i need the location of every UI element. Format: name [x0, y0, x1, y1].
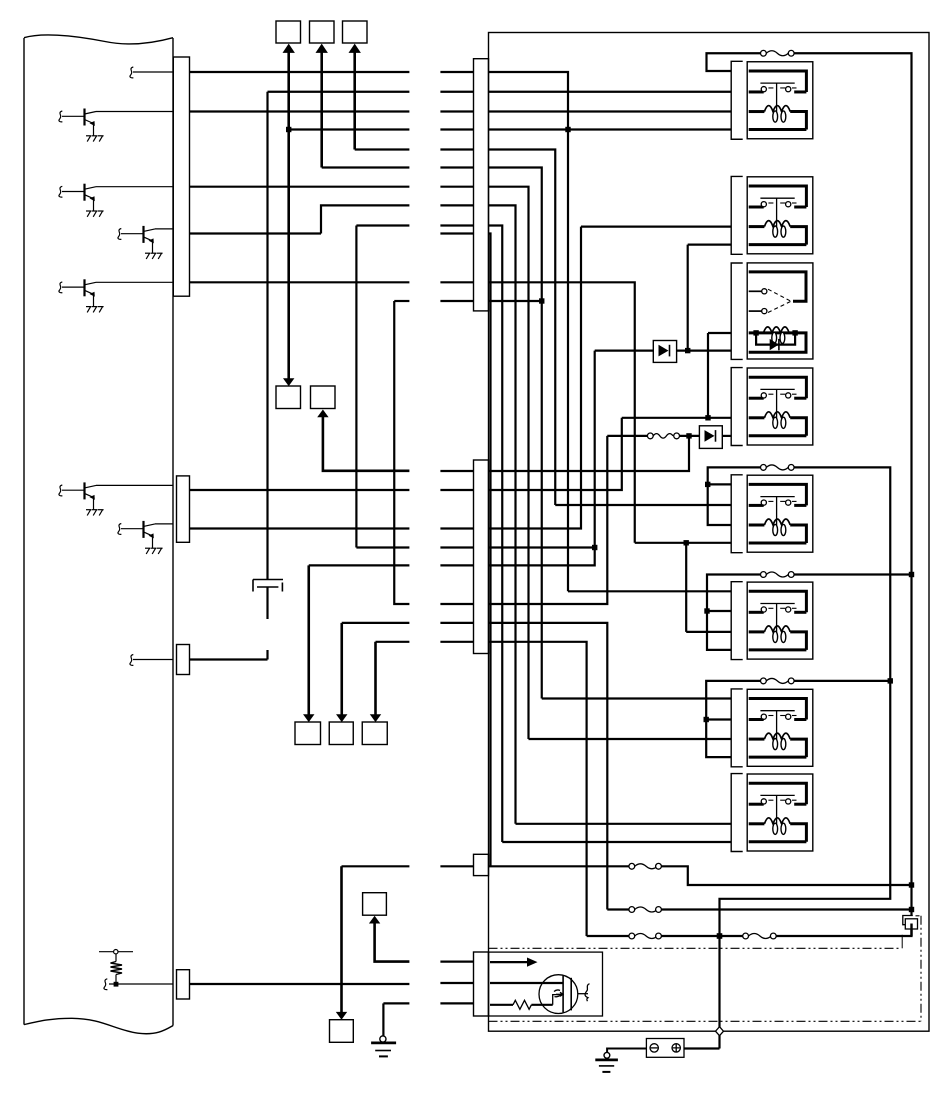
- wire vertical net relay8-bottom (x356): [355, 226, 357, 548]
- wire continuation squiggle pin 659: [130, 655, 133, 666]
- arrow down into square A: [283, 378, 294, 386]
- fuse F4: [629, 907, 662, 913]
- ground G2 circle: [604, 1052, 610, 1058]
- connector square D1: [295, 722, 321, 745]
- junction dot relay6 contact stub: [704, 608, 709, 613]
- wire row 350.6 diode1 input: [595, 350, 654, 352]
- relay K3 coil junction squares: [753, 330, 758, 335]
- junction dot x568 row129.5: [565, 127, 570, 132]
- connector square D2: [329, 722, 353, 745]
- transistor Q6: [118, 521, 173, 548]
- junction dot x719.5 row936 second: [717, 933, 722, 938]
- dash-dot boundary right: [920, 916, 922, 1022]
- wire row 226.6 to relay2 coil: [581, 226, 731, 228]
- arrow up into square E: [349, 44, 361, 53]
- wire motor lower with resistor R2: [490, 1004, 513, 1006]
- wire row 205.4 right part, corner down x515.5: [440, 205, 515, 823]
- junction resistor/pin983: [114, 982, 119, 987]
- diode D1 symbol: [659, 345, 669, 357]
- relay K3 contact terminal 1: [749, 290, 762, 292]
- relay K8: [731, 774, 813, 852]
- junction dot relay7 contact stub: [704, 717, 709, 722]
- junction dot x594.7 row547.5: [592, 545, 597, 550]
- wire vertical x394 (fuse2 net link): [394, 301, 409, 604]
- wire ECU pin y72 internal: [133, 71, 173, 73]
- arrow up into square H: [369, 916, 380, 924]
- resistor R1 pull-up inside ECU: [99, 950, 173, 985]
- wire row 604 right part, corner up x607.3: [440, 436, 607, 604]
- relay K1 (condenser fan relay): [731, 61, 813, 139]
- wire ECU pin 72 row: [190, 71, 410, 73]
- wiper motor assembly box: [489, 952, 603, 1016]
- wire row 167.5 right part, corner down x541.75: [440, 168, 541, 699]
- wire resistor to motor: [531, 1004, 552, 1006]
- wire ground row right part: [440, 1002, 474, 1004]
- connector square F (top row 2): [310, 21, 335, 43]
- connector square H: [363, 893, 387, 916]
- in-line connector stub above bar3 wire: [266, 650, 268, 660]
- wire row 129.5 left part from C-line junction: [289, 128, 410, 130]
- wire row 282 right part, corner down x634.75: [440, 282, 634, 543]
- junction box connector bar 4: [474, 854, 489, 875]
- wire ECU pin 111.5 row (Q1): [190, 110, 410, 112]
- wire vertical down into square D3: [374, 642, 377, 716]
- wire row 697.5 to relay7 top: [542, 697, 731, 699]
- fuse F1: [761, 50, 795, 56]
- wire row 591.3 to relay6 top: [568, 590, 731, 592]
- resistor R2 zigzag: [513, 1000, 531, 1009]
- wire vertical down into square G: [340, 866, 343, 1014]
- wire row 301 left part: [394, 300, 409, 302]
- ground of Q3: [145, 253, 163, 259]
- wire row 1003.4 left part: [383, 1002, 409, 1004]
- wire vertical square F down: [320, 48, 323, 168]
- wire row 225.5 right part, corner down x502.25: [440, 226, 502, 843]
- diode D2 symbol: [705, 430, 715, 442]
- wire relay1 feed jog: [707, 53, 912, 915]
- wire relay6 feed and fuse F8: [707, 575, 912, 650]
- ECU connector bar 2: [177, 476, 190, 542]
- wire battery plus to riser: [684, 1047, 720, 1049]
- relay K6: [731, 582, 813, 660]
- ground of Q4: [86, 307, 104, 313]
- arrow down into square D1: [303, 714, 314, 722]
- wire row 866.3 left part to square G: [342, 865, 410, 867]
- transistor Q3: [118, 226, 173, 253]
- wire row 72 right part, corner down x568: [440, 72, 568, 591]
- transistor Q1: [59, 109, 173, 136]
- diode D2 box: [699, 426, 722, 449]
- wire row 92 right part to relay1 contact: [440, 91, 731, 93]
- relay K3 coil row: [749, 333, 806, 352]
- relay K3 bracket: [731, 263, 743, 359]
- wire row 244.6 to relay2 bottom: [688, 244, 732, 246]
- junction dot x541.75 row301: [539, 298, 544, 303]
- fuse F2: [647, 433, 679, 439]
- relay K3 flyback diode branch: [756, 333, 795, 345]
- wire row 866.3 right part with fuse F3: [440, 865, 629, 867]
- connector square D3: [362, 722, 387, 745]
- relay K3 outer box: [747, 263, 813, 359]
- battery / power unit box: [646, 1039, 684, 1058]
- junction box connector bar 5: [474, 952, 489, 1016]
- junction box connector bar 3: [474, 460, 489, 654]
- arrow up into square B: [317, 410, 328, 418]
- wire relay6 contact stub: [707, 610, 731, 612]
- wire ECU pin 528.5 row (Q6): [190, 527, 410, 529]
- arrow down into square D3: [370, 714, 381, 722]
- ground of Q6: [145, 548, 163, 554]
- diode D1 box: [653, 341, 676, 363]
- wire motor armature feed: [490, 982, 563, 984]
- transistor Q4: [59, 279, 173, 306]
- wire row 149.5 right part, corner down x555: [440, 150, 555, 506]
- wire fuse6 up into connector component: [776, 924, 911, 937]
- wire row 111.5 right part to relay1 coil: [440, 110, 731, 112]
- wire relay7 contact stub: [706, 718, 731, 720]
- capacitor net vertical from relay1-contact row: [266, 92, 268, 579]
- wire row 565.4 to square D1: [309, 564, 410, 566]
- relay K5: [731, 475, 813, 553]
- wire diode2 output to relay4 bottom: [722, 435, 731, 437]
- wire relay5 feed and fuse F7: [708, 467, 891, 1048]
- wire vertical x708 relay3-coil feeder: [707, 333, 709, 418]
- wire row 547.5 right part: [440, 546, 594, 548]
- relay K3 (special relay with diode): [731, 263, 813, 360]
- wire row 333 to relay3 coil: [708, 332, 731, 334]
- wire vertical to ground G1: [382, 1003, 384, 1036]
- wire vertical square B down to row 470: [323, 414, 410, 471]
- transistor Q5: [59, 482, 173, 509]
- relay box / junction box outline (right): [489, 33, 930, 1032]
- wire row 631.9 to relay6 coil: [686, 631, 731, 633]
- junction dot x719.5 row936: [717, 933, 722, 938]
- wire fuse5 to fuse6: [661, 935, 742, 937]
- capacitor C1: [253, 580, 283, 592]
- wire continuation squiggle pin 983: [104, 979, 107, 990]
- wire row 301 right part: [440, 300, 541, 302]
- junction dot x687.7 row350.6: [685, 348, 690, 353]
- wire vertical x687.7 relay2 bottom link: [687, 245, 689, 351]
- fuse F5: [629, 933, 662, 939]
- wire row 739 to relay7 coil: [529, 738, 732, 740]
- connector square A: [276, 386, 301, 409]
- battery minus terminal: [650, 1044, 658, 1052]
- arrow down into square D2: [336, 714, 347, 722]
- connector square G: [330, 1020, 354, 1043]
- in-line connector component (bottom right): [902, 916, 917, 949]
- wire row 187 right part, corner down x528.5: [440, 187, 528, 739]
- ECU box (left control unit): [24, 35, 173, 1034]
- arrow down into square G: [336, 1012, 347, 1020]
- wire ECU pin 187 row (Q2): [190, 186, 410, 188]
- wire row 909.5 with fuse F4: [607, 908, 629, 910]
- wire ECU pin 490 row (Q5): [190, 489, 410, 491]
- wire ECU pin 983.9 row: [190, 983, 410, 985]
- fuse F9: [761, 678, 795, 684]
- relay K7: [731, 689, 813, 767]
- wire battery to ground: [607, 1049, 646, 1053]
- wire row 641.8 to square D3: [376, 641, 410, 643]
- relay K4: [731, 368, 813, 446]
- connector node diamond at box bottom: [716, 1027, 724, 1036]
- relay K3 contact terminal 2: [749, 310, 762, 312]
- dash-dot boundary top: [489, 947, 900, 949]
- fuse F8: [761, 572, 795, 578]
- wire row 129.5 right part to relay1 bottom: [440, 128, 731, 130]
- wire continuation squiggle pin 72: [130, 67, 133, 78]
- ECU connector bar 4: [177, 970, 190, 999]
- fuse F3: [629, 863, 662, 869]
- wire row 528.5 right part, corner up x581: [440, 227, 581, 529]
- wire row 416.5 to relay4 coil: [622, 417, 731, 419]
- wire row 622.9 to square D2: [342, 622, 410, 624]
- wire row 91.75 left part: [268, 91, 410, 93]
- battery plus terminal: [672, 1044, 680, 1052]
- dash-dot boundary jog at connector: [916, 915, 922, 917]
- junction box connector bar 1: [474, 59, 489, 311]
- connector square B: [311, 386, 336, 409]
- wire vertical down into square D1: [307, 565, 310, 716]
- ground of Q1: [86, 136, 104, 142]
- wire motor feed row right part: [440, 982, 474, 984]
- junction dot relay5 top stub: [705, 482, 710, 487]
- wire row 842 to relay8 bottom: [502, 841, 731, 843]
- connector square E (top row 3): [343, 21, 368, 43]
- relay K2: [731, 176, 813, 254]
- connector square C (top row 1): [276, 21, 301, 43]
- junction dot C-line / relay1 bottom wire: [286, 127, 291, 132]
- wire ECU pin y659 internal: [133, 659, 173, 661]
- signal arrow inside assembly: [490, 961, 528, 963]
- fuse F7: [761, 465, 795, 471]
- wire row 233.5 right part, corner down x490.5: [440, 234, 490, 867]
- arrow up into square C: [283, 44, 295, 53]
- wire row 149.5 left part from E-line: [355, 148, 410, 150]
- ground G1 circle: [380, 1036, 386, 1042]
- wire row 622.9 right part, corner down x607.3: [440, 623, 607, 910]
- wire fuse2 to diode2: [680, 435, 700, 437]
- wire row 471 right part (square B net): [440, 436, 689, 471]
- relay K3 dashed throw lines: [768, 289, 791, 301]
- wire row 565.4 right part, corner up x594.7: [440, 351, 594, 566]
- ground of Q5: [86, 510, 104, 516]
- junction dot x689 row435.9: [686, 433, 691, 438]
- wire fuse3 to corner x687.8: [661, 866, 911, 885]
- wire row 547.5 left part: [356, 546, 409, 548]
- wire vertical x686.2 to relay6 coil row: [685, 543, 687, 632]
- wire square H row right part: [440, 960, 474, 962]
- junction dot x890.25 row680.9: [888, 678, 893, 683]
- wire row 936 with fuse F5: [587, 935, 629, 937]
- arrow up into square F: [316, 44, 328, 53]
- wire row 225.5 left part: [356, 224, 409, 226]
- wire row 542.8 to relay5 bottom: [635, 542, 731, 544]
- ECU connector bar 1: [173, 57, 189, 296]
- wire ECU pin 233.5 row (Q3): [190, 232, 322, 234]
- wire row 504.5 to relay5 contact: [555, 504, 731, 506]
- junction dot x911.5 row885: [909, 882, 914, 887]
- wire fuse4 to main bus: [661, 908, 911, 910]
- wire vertical down into square D2: [340, 623, 343, 716]
- transistor Q2: [59, 184, 173, 211]
- wire vertical square H down to row 961.6: [375, 919, 410, 962]
- junction dot x686.2 row542.8: [684, 540, 689, 545]
- wire row 823 to relay8 coil: [516, 823, 732, 825]
- wire row 167.5 left part from F-line: [322, 166, 410, 168]
- ECU connector bar 3: [177, 645, 190, 675]
- junction dot main bus row574.5: [909, 572, 914, 577]
- dash-dot boundary bottom: [489, 1020, 922, 1022]
- wire relay5 top stub: [708, 483, 732, 485]
- wire vertical square E down: [353, 48, 356, 150]
- fuse F6: [743, 933, 777, 939]
- wire row 641.8 right part, corner down x586.6: [440, 642, 586, 936]
- ground of Q2: [86, 211, 104, 217]
- wire vertical square C to square A: [287, 48, 290, 380]
- relay K3 top bus: [749, 272, 806, 301]
- junction dot x911.5 row909.5: [909, 907, 914, 912]
- wire diode1 output to relay3 bracket: [677, 350, 732, 352]
- wiper motor M1: [539, 975, 590, 1014]
- wire relay7 feed and fuse F9: [706, 681, 890, 757]
- wire row 490 right part, corner up x621.8: [440, 418, 621, 490]
- junction dot x708 row416.5: [705, 415, 710, 420]
- wire jog T3 row up to relay8-coil row: [321, 205, 409, 233]
- ground G1 bars: [371, 1042, 396, 1045]
- wire row 435.9 fuse2/diode2 feed: [607, 435, 647, 437]
- ground G2 bars: [595, 1059, 618, 1062]
- capacitor stem below: [266, 588, 268, 620]
- wire ECU pin 282 row (Q4): [190, 281, 410, 283]
- wire ECU pin 659 to stub: [190, 658, 268, 660]
